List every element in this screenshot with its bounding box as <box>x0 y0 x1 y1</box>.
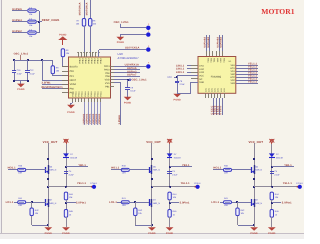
svg-text:PF1: PF1 <box>70 75 75 78</box>
svg-text:OSC_1.Nc1: OSC_1.Nc1 <box>132 79 148 82</box>
svg-text:PA8: PA8 <box>105 75 110 78</box>
svg-text:PGND: PGND <box>268 232 276 235</box>
svg-text:PA9: PA9 <box>105 72 110 75</box>
svg-text:YEL1.1: YEL1.1 <box>181 182 191 185</box>
svg-text:LIN3: LIN3 <box>199 71 205 74</box>
svg-text:FD6288Q: FD6288Q <box>211 75 222 78</box>
svg-text:VS2: VS2 <box>231 79 236 82</box>
svg-text:5.0Pin1: 5.0Pin1 <box>180 202 190 205</box>
svg-text:VDD: VDD <box>105 79 110 82</box>
svg-text:PGND: PGND <box>17 88 25 91</box>
svg-text:NC: NC <box>199 78 203 81</box>
svg-text:PA4A: PA4A <box>84 91 87 97</box>
svg-text:HO2: HO2 <box>230 76 235 79</box>
svg-text:12Vin1: 12Vin1 <box>90 182 98 185</box>
svg-text:VB2: VB2 <box>231 73 236 76</box>
svg-text:LIN2: LIN2 <box>199 68 205 71</box>
svg-text:10R: 10R <box>224 172 228 175</box>
svg-text:N6R_N: N6R_N <box>49 202 56 205</box>
svg-text:VDDA: VDDA <box>70 83 77 86</box>
svg-text:IN4148: IN4148 <box>174 156 182 159</box>
svg-text:IN4148: IN4148 <box>70 156 78 159</box>
svg-text:3.3FM1: 3.3FM1 <box>42 82 52 85</box>
svg-text:YB1.1: YB1.1 <box>182 164 190 167</box>
svg-text:3.3uF: 3.3uF <box>17 72 23 75</box>
svg-text:PGND: PGND <box>148 232 156 235</box>
svg-text:U1PinA1: U1PinA1 <box>98 113 101 124</box>
svg-text:2.2uF: 2.2uF <box>274 173 280 176</box>
svg-text:PF0: PF0 <box>70 70 75 73</box>
svg-text:YB1.1: YB1.1 <box>78 164 86 167</box>
svg-text:2.2uF: 2.2uF <box>180 83 186 86</box>
svg-text:10R: 10R <box>122 172 126 175</box>
svg-text:0.1uF: 0.1uF <box>130 89 136 92</box>
svg-text:0.1uF: 0.1uF <box>30 72 36 75</box>
svg-text:YEL1.1: YEL1.1 <box>77 182 87 185</box>
svg-text:10R: 10R <box>18 172 22 175</box>
svg-text:NRST: NRST <box>70 79 77 82</box>
svg-text:YB1.1: YB1.1 <box>284 164 292 167</box>
svg-text:PGND: PGND <box>174 98 182 101</box>
svg-text:U1PinC3: U1PinC3 <box>211 113 222 116</box>
svg-text:LO1.1: LO1.1 <box>6 201 14 204</box>
svg-text:AT32F421K8U7: AT32F421K8U7 <box>118 56 140 60</box>
svg-text:PGND: PGND <box>124 101 132 104</box>
svg-text:VSS: VSS <box>105 82 110 85</box>
svg-text:VCC: VCC <box>199 74 204 77</box>
svg-text:N6R_N: N6R_N <box>153 169 160 172</box>
svg-text:PB4A: PB4A <box>78 59 81 65</box>
svg-text:PB4A: PB4A <box>84 59 87 65</box>
svg-text:PGND: PGND <box>117 41 125 44</box>
svg-text:PGND: PGND <box>250 232 258 235</box>
svg-text:IN4148: IN4148 <box>276 156 284 159</box>
svg-text:BOOT0: BOOT0 <box>70 66 79 69</box>
svg-text:PA4A: PA4A <box>87 91 90 97</box>
svg-text:N6R_N: N6R_N <box>255 202 262 205</box>
svg-text:N6R_N: N6R_N <box>255 169 262 172</box>
svg-text:VCC_OUT: VCC_OUT <box>146 140 161 144</box>
svg-text:OSC_1.Nc1: OSC_1.Nc1 <box>14 52 29 55</box>
svg-text:10R: 10R <box>18 204 22 207</box>
svg-text:U1PinB2: U1PinB2 <box>207 36 210 47</box>
svg-text:PA13: PA13 <box>104 65 110 68</box>
svg-text:PGND: PGND <box>59 34 67 37</box>
svg-text:N6R_N: N6R_N <box>49 169 56 172</box>
svg-text:LIN1: LIN1 <box>199 65 205 68</box>
svg-text:LIN1.1: LIN1.1 <box>176 71 185 74</box>
svg-text:PB4A: PB4A <box>93 59 96 65</box>
svg-text:U10YCK1A: U10YCK1A <box>125 47 140 50</box>
svg-text:10R: 10R <box>122 204 126 207</box>
svg-text:PB1: PB1 <box>105 86 110 89</box>
svg-text:N6R_N: N6R_N <box>153 202 160 205</box>
svg-text:PB4A: PB4A <box>96 59 99 65</box>
svg-text:2.2uF: 2.2uF <box>172 173 178 176</box>
svg-text:PA4A: PA4A <box>100 91 103 97</box>
svg-text:PA4A: PA4A <box>74 91 77 97</box>
svg-text:5.0Pin1: 5.0Pin1 <box>282 202 292 205</box>
svg-text:PGND: PGND <box>67 111 75 114</box>
svg-text:U1PinB2: U1PinB2 <box>220 36 223 47</box>
svg-text:PB4A: PB4A <box>90 59 93 65</box>
svg-text:1.25kHz: 1.25kHz <box>118 114 121 124</box>
svg-text:VCC_OUT: VCC_OUT <box>43 140 58 144</box>
svg-text:LO1.1: LO1.1 <box>211 201 219 204</box>
svg-text:PGND: PGND <box>62 232 70 235</box>
svg-text:PGND: PGND <box>166 232 174 235</box>
svg-text:YEL1.1: YEL1.1 <box>283 182 293 185</box>
svg-text:GND: GND <box>199 81 204 84</box>
svg-text:RESP_COM1: RESP_COM1 <box>42 19 60 22</box>
svg-text:LO1.1: LO1.1 <box>109 201 117 204</box>
svg-text:YEL1.1: YEL1.1 <box>248 80 258 83</box>
svg-text:PB4A: PB4A <box>99 59 102 65</box>
svg-text:PB4A: PB4A <box>87 59 90 65</box>
svg-text:2.2uF: 2.2uF <box>69 173 75 176</box>
svg-text:PGND: PGND <box>45 232 53 235</box>
svg-text:U1Pin7: U1Pin7 <box>127 74 137 77</box>
svg-text:VCC_OUT: VCC_OUT <box>248 140 263 144</box>
svg-text:PA4A: PA4A <box>71 91 74 97</box>
svg-text:PA4A: PA4A <box>97 91 100 97</box>
svg-text:OSC_1.Pb1: OSC_1.Pb1 <box>114 21 130 24</box>
svg-text:PA4A: PA4A <box>81 91 84 97</box>
svg-text:VB3: VB3 <box>231 82 236 85</box>
svg-text:10R: 10R <box>224 204 228 207</box>
svg-text:MOTOR1A: MOTOR1A <box>79 2 82 15</box>
svg-text:PA4A: PA4A <box>93 91 96 97</box>
svg-text:12V: 12V <box>167 76 172 79</box>
svg-text:MOTOR1: MOTOR1 <box>261 7 294 16</box>
svg-text:PA10: PA10 <box>104 69 110 72</box>
svg-text:PA4A: PA4A <box>90 91 93 97</box>
svg-text:PB4A: PB4A <box>81 59 84 65</box>
svg-text:MOTOR1A: MOTOR1A <box>86 2 89 15</box>
svg-text:HO1: HO1 <box>230 67 235 70</box>
svg-text:12Vin1: 12Vin1 <box>296 182 304 185</box>
svg-text:12Vin1: 12Vin1 <box>194 182 202 185</box>
svg-text:PA4A: PA4A <box>78 91 81 97</box>
svg-text:PA0: PA0 <box>70 87 75 90</box>
svg-text:5.0Pin1: 5.0Pin1 <box>76 202 86 205</box>
svg-text:VS1: VS1 <box>231 70 236 73</box>
svg-text:RESP/PA8/OSC1: RESP/PA8/OSC1 <box>42 86 64 89</box>
svg-text:VB1: VB1 <box>231 64 236 67</box>
